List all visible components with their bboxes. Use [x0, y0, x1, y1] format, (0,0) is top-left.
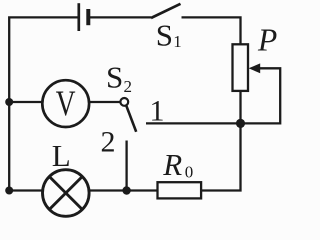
svg-text:2: 2: [101, 126, 116, 159]
svg-text:V: V: [56, 83, 76, 122]
svg-text:2: 2: [124, 77, 133, 96]
svg-text:S: S: [156, 18, 173, 53]
svg-text:0: 0: [185, 163, 194, 182]
svg-text:1: 1: [173, 32, 182, 51]
svg-text:S: S: [106, 60, 123, 95]
svg-text:1: 1: [150, 95, 165, 128]
svg-text:R: R: [162, 147, 182, 182]
svg-text:L: L: [52, 138, 71, 173]
svg-text:P: P: [257, 23, 277, 58]
